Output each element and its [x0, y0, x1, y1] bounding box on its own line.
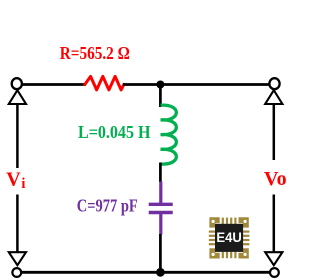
port terminal bottom-right circle: [270, 268, 279, 277]
capacitor C1 top lead: [159, 182, 162, 204]
port terminal top-left circle: [12, 78, 22, 89]
arrow up right: [265, 90, 282, 104]
svg-text:E4U: E4U: [216, 229, 241, 245]
wire top-left segment: [20, 83, 86, 86]
arrow down right: [265, 252, 282, 265]
arrow down left: [9, 252, 26, 265]
wire right vertical lower: [273, 195, 276, 254]
arrow up left: [9, 90, 26, 104]
wire capacitor-to-bottom: [159, 234, 162, 272]
wire left vertical lower: [16, 195, 19, 254]
inductor L1 coil: [161, 105, 177, 164]
capacitor C1 bottom plate: [149, 211, 173, 214]
svg-text:R=565.2 Ω: R=565.2 Ω: [60, 43, 130, 63]
junction dot bottom node: [156, 268, 165, 277]
svg-text:C=977 pF: C=977 pF: [77, 195, 138, 215]
resistor R1 zigzag: [85, 76, 124, 90]
wire inductor-to-capacitor: [159, 163, 162, 183]
junction dot top node: [156, 81, 164, 89]
svg-text:L=0.045 H: L=0.045 H: [78, 122, 151, 142]
port terminal top-right circle: [269, 78, 279, 89]
wire top-right segment: [123, 83, 271, 86]
port terminal bottom-left circle: [12, 268, 21, 277]
wire left vertical upper: [16, 103, 19, 168]
capacitor C1 bottom lead: [159, 213, 162, 234]
E4U logo chip: [209, 217, 250, 258]
svg-text:Vo: Vo: [264, 168, 287, 190]
wire bottom segment: [17, 271, 271, 274]
capacitor C1 top plate: [149, 203, 173, 206]
wire right vertical upper: [273, 103, 276, 160]
wire inductor branch top: [159, 85, 162, 108]
svg-text:Vi: Vi: [6, 169, 25, 193]
